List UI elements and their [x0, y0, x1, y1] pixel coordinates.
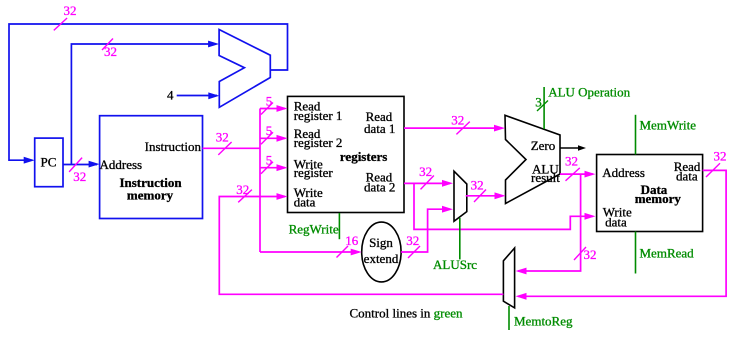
svg-text:Instruction: Instruction — [145, 139, 202, 154]
svg-text:register 2: register 2 — [294, 135, 343, 150]
svg-text:registers: registers — [340, 149, 387, 164]
svg-text:Sign: Sign — [369, 235, 393, 250]
svg-text:32: 32 — [216, 130, 229, 145]
svg-text:ALUSrc: ALUSrc — [433, 257, 477, 272]
svg-text:32: 32 — [236, 182, 249, 197]
svg-text:data 2: data 2 — [364, 179, 395, 194]
svg-text:Zero: Zero — [531, 138, 556, 153]
svg-text:register: register — [294, 165, 334, 180]
svg-text:data 1: data 1 — [364, 121, 395, 136]
svg-text:5: 5 — [266, 123, 273, 138]
svg-text:Address: Address — [602, 165, 645, 180]
svg-text:32: 32 — [471, 178, 484, 193]
svg-text:data: data — [676, 169, 698, 184]
svg-text:Control lines in green: Control lines in green — [350, 306, 464, 321]
svg-text:PC: PC — [41, 154, 57, 169]
svg-text:RegWrite: RegWrite — [289, 222, 339, 237]
svg-text:32: 32 — [73, 169, 86, 184]
svg-text:32: 32 — [406, 233, 419, 248]
svg-text:32: 32 — [565, 154, 578, 169]
svg-text:5: 5 — [266, 94, 273, 109]
svg-text:32: 32 — [104, 44, 117, 59]
svg-text:register 1: register 1 — [294, 108, 343, 123]
svg-text:32: 32 — [584, 247, 597, 262]
svg-text:extend: extend — [364, 251, 399, 266]
svg-text:memory: memory — [127, 187, 174, 202]
svg-text:4: 4 — [167, 87, 174, 102]
svg-text:result: result — [531, 170, 560, 185]
svg-text:3: 3 — [535, 95, 542, 110]
svg-text:ALU Operation: ALU Operation — [548, 84, 630, 99]
svg-text:data: data — [605, 215, 627, 230]
svg-text:MemtoReg: MemtoReg — [514, 314, 573, 329]
svg-text:32: 32 — [64, 3, 77, 18]
svg-text:32: 32 — [714, 149, 727, 164]
svg-text:Address: Address — [100, 157, 143, 172]
svg-text:32: 32 — [419, 164, 432, 179]
svg-text:data: data — [294, 195, 316, 210]
svg-text:MemRead: MemRead — [640, 246, 695, 261]
svg-text:16: 16 — [345, 233, 359, 248]
svg-text:32: 32 — [451, 113, 464, 128]
svg-text:memory: memory — [635, 191, 682, 206]
svg-text:MemWrite: MemWrite — [640, 118, 697, 133]
svg-text:5: 5 — [266, 153, 273, 168]
